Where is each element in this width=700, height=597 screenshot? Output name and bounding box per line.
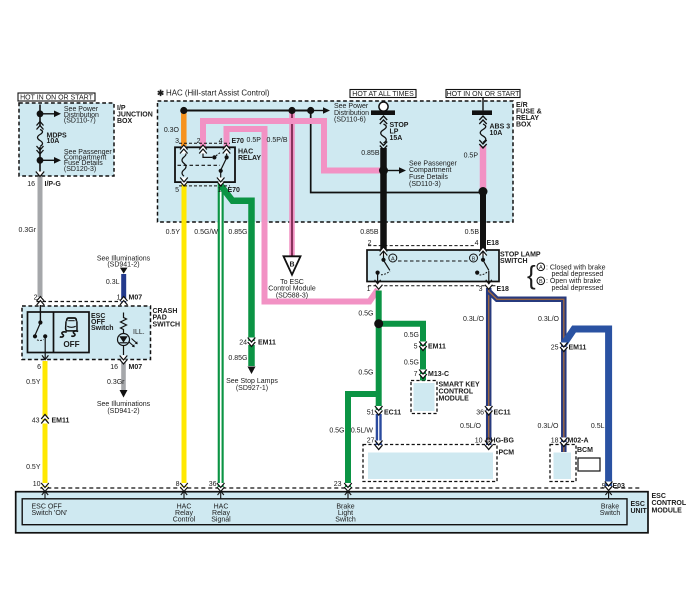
- wire 0.5P HAC relay pin 2 to stop-lp junction (pink): [203, 121, 381, 171]
- note see power distribution SD110-6: [334, 103, 369, 124]
- connector E18 pin 4 chevrons: [479, 247, 487, 256]
- svg-text:43: 43: [32, 417, 40, 424]
- svg-text:0.5G: 0.5G: [358, 369, 373, 376]
- arrow: see stop lamps: [248, 367, 256, 375]
- svg-text:SWITCH: SWITCH: [153, 321, 181, 328]
- svg-text:I/P-G: I/P-G: [45, 181, 62, 188]
- stop lamp switch mechanical link (dashed): [398, 260, 468, 262]
- svg-text:Switch: Switch: [91, 325, 114, 332]
- crash pad switch box (dashed module box): [22, 306, 151, 360]
- wire: I/P fuse lower lead: [39, 147, 41, 175]
- ESC pin 8 arrow: [181, 491, 187, 499]
- note to ESC control module SD588-3: [268, 279, 316, 300]
- symbol B triangle to ESC control module: [284, 253, 301, 275]
- connector EM11 pin 24 chevrons: [248, 338, 256, 347]
- connector chevrons ESC pin 10: [41, 483, 49, 492]
- svg-text:10: 10: [33, 481, 41, 488]
- connector M13-C pin 7 chevrons: [419, 370, 427, 379]
- connector chevrons ESC pin 36: [217, 483, 225, 492]
- connector E18 dashed line bottom: [368, 285, 497, 287]
- illumination LED lamp: [118, 334, 138, 356]
- connector E18 pin 3 chevrons: [485, 285, 493, 290]
- node: junction 0.85B / 0.5P: [379, 166, 388, 175]
- connector E18 pin 2 chevrons: [380, 247, 388, 256]
- svg-text:1: 1: [117, 295, 121, 302]
- svg-text:M07: M07: [129, 295, 143, 302]
- svg-text:23: 23: [334, 481, 342, 488]
- svg-text:0.5G: 0.5G: [404, 359, 419, 366]
- ESC pin 10 arrow: [42, 491, 48, 499]
- connector E70 pin 2 chevrons: [199, 145, 207, 154]
- connector EC11 pin 36 chevrons: [485, 406, 493, 415]
- svg-text:9: 9: [602, 483, 606, 490]
- label STOP LAMP SWITCH: [500, 251, 541, 265]
- BCM auxiliary white box: [578, 458, 600, 471]
- svg-text:CONTROL: CONTROL: [439, 389, 474, 396]
- ESC unit label brake light switch: [335, 503, 356, 523]
- ESC connector dashed line: [40, 487, 640, 489]
- connector M07 pin 16 chevrons: [120, 356, 128, 365]
- wire 0.5P/B to ESC control module (pink/black): [289, 112, 295, 256]
- svg-text:A: A: [391, 256, 395, 262]
- svg-text:7: 7: [414, 371, 418, 378]
- wire 0.5G branch to ESC pin 23 (green): [348, 394, 379, 488]
- svg-text:Control: Control: [173, 516, 196, 523]
- connector CHG-BG pin 10 chevrons: [485, 441, 493, 450]
- svg-text:ESC: ESC: [652, 493, 666, 500]
- svg-text:BCM: BCM: [577, 447, 593, 454]
- svg-text:(SD120-3): (SD120-3): [64, 166, 96, 173]
- stop lamp switch contact B: [470, 251, 492, 284]
- svg-text:0.85B: 0.85B: [360, 229, 379, 236]
- label pin 18 M02-A: [551, 437, 589, 444]
- connector M02-A pin 18 chevrons: [560, 438, 568, 447]
- wire 0.3O HAC relay pin 3 feed (orange): [181, 111, 187, 147]
- ESC unit pin numbers: [33, 481, 342, 488]
- svg-text:M13-C: M13-C: [428, 371, 449, 378]
- fuse MDPS 10A: [37, 122, 44, 155]
- label pin 2 M07 top: [34, 295, 143, 302]
- svg-text:25: 25: [551, 345, 559, 352]
- HOT IN ON OR START label box (left): [18, 93, 95, 102]
- svg-text:0.3L/O: 0.3L/O: [463, 316, 485, 323]
- fuse ABS 3 10A: [472, 97, 492, 148]
- svg-text:Switch: Switch: [600, 510, 621, 517]
- wire 0.85G HAC relay pin 1 branch to stop lamps: [221, 186, 252, 342]
- label pin 10 CHG-BG: [475, 437, 515, 444]
- ESC OFF switch contact: [33, 320, 49, 359]
- svg-text:(SD941-2): (SD941-2): [107, 408, 139, 415]
- svg-text:CONTROL: CONTROL: [652, 500, 687, 507]
- wire 0.5P ABS3 fuse output (pink): [480, 146, 487, 192]
- label pin 25 EM11: [551, 345, 587, 352]
- svg-text:0.5P: 0.5P: [464, 153, 479, 160]
- label E70 pins 3 2 4: [175, 137, 288, 145]
- svg-text:BOX: BOX: [516, 121, 532, 128]
- ESC unit inner box: [22, 499, 627, 525]
- svg-text:0.85G: 0.85G: [228, 229, 247, 236]
- connector EM11 pin 5 chevrons: [419, 342, 427, 351]
- svg-text:10A: 10A: [47, 138, 60, 145]
- HAC relay mechanical link (dashed): [178, 164, 221, 166]
- connector EM11 pin 43 chevrons: [41, 415, 49, 424]
- svg-text:36: 36: [476, 409, 484, 416]
- svg-text:0.3L/O: 0.3L/O: [537, 423, 559, 430]
- wire 0.5Y ESC OFF switch pin 6 to ESC pin 10 (yellow): [43, 361, 48, 488]
- HOT AT ALL TIMES label box: [350, 90, 416, 99]
- connector M07 pin 1 chevrons: [120, 297, 128, 306]
- svg-text:E70: E70: [228, 187, 241, 194]
- svg-text:HAC (Hill-start Assist Control: HAC (Hill-start Assist Control): [166, 88, 270, 97]
- BCM box (dashed): [550, 445, 576, 482]
- connector M07 dashed line top: [37, 301, 121, 303]
- wire 0.3Gr illumination ground (gray): [121, 362, 126, 390]
- stop lamp switch box: [367, 250, 499, 282]
- ESC unit label HAC relay signal: [211, 503, 231, 523]
- label I/P JUNCTION BOX: [117, 105, 153, 125]
- ESC OFF indicator icon (car with skid): [60, 318, 78, 337]
- label fuse STOP LP 15A: [390, 122, 409, 142]
- connector E70 pin 4 chevrons: [223, 145, 231, 154]
- svg-text:A: A: [539, 265, 543, 271]
- svg-text:0.3L: 0.3L: [106, 279, 120, 286]
- svg-text:MODULE: MODULE: [439, 396, 470, 403]
- node: junction 0.5G at stop lamp output: [374, 319, 383, 328]
- svg-text:EM11: EM11: [258, 339, 276, 346]
- svg-text:0.3Gr: 0.3Gr: [107, 379, 125, 386]
- svg-text:0.3L/O: 0.3L/O: [538, 316, 560, 323]
- arrow: see passenger fuse details SD120-3: [40, 157, 61, 164]
- HAC relay box: [175, 147, 235, 182]
- labels 0.85B 0.5B above E18: [360, 229, 479, 236]
- arrow: see power distribution SD110-7: [40, 111, 61, 118]
- legend circle A closed with brake pedal depressed: [537, 263, 606, 278]
- label CRASH PAD SWITCH: [153, 308, 181, 328]
- svg-text:0.5P: 0.5P: [247, 137, 262, 144]
- label E70 pins 5 1: [175, 187, 240, 194]
- svg-text:0.5G: 0.5G: [404, 332, 419, 339]
- svg-text:2: 2: [197, 138, 201, 145]
- svg-text:SMART KEY: SMART KEY: [439, 382, 481, 389]
- note see passenger compartment fuse details SD120-3: [64, 149, 113, 173]
- svg-text:16: 16: [110, 364, 118, 371]
- svg-text:M02-A: M02-A: [568, 437, 589, 444]
- svg-text:MODULE: MODULE: [652, 507, 683, 514]
- label fuse MDPS 10A: [47, 132, 68, 145]
- svg-text:5: 5: [414, 343, 418, 350]
- connector E03 pin 9 chevrons: [605, 482, 613, 491]
- svg-text:51: 51: [367, 409, 375, 416]
- label ESC OFF Switch: [91, 313, 114, 332]
- svg-text:E18: E18: [487, 240, 500, 247]
- wire 0.5G/W HAC relay pin 1 to ESC pin 36 (green/white): [218, 182, 224, 488]
- illumination lamp resistor: [121, 313, 127, 334]
- label ESC UNIT: [631, 501, 648, 515]
- wire 0.5Y HAC relay pin 5 to ESC pin 8 (yellow): [182, 182, 187, 488]
- svg-text:4: 4: [219, 138, 223, 145]
- connector E18 pin 1 chevrons: [375, 285, 383, 290]
- svg-text:BOX: BOX: [117, 118, 133, 125]
- svg-text:CHG-BG: CHG-BG: [486, 437, 515, 444]
- ESC control module outer box: [16, 492, 648, 533]
- labels wires below HAC box: [166, 229, 248, 236]
- node: I/P fuse upper junction: [37, 110, 44, 117]
- smart key control module box (dashed): [411, 381, 437, 414]
- ESC OFF switch box: [28, 312, 90, 353]
- connector E18 dashed line top: [368, 245, 475, 247]
- svg-text:10: 10: [475, 437, 483, 444]
- svg-text:0.5L/W: 0.5L/W: [351, 427, 374, 434]
- HAC relay coil: [182, 152, 186, 177]
- svg-text:0.5P/B: 0.5P/B: [267, 137, 288, 144]
- svg-text:0.5G: 0.5G: [329, 427, 344, 434]
- svg-text:HOT AT ALL TIMES: HOT AT ALL TIMES: [352, 91, 414, 98]
- wire 0.3Gr I/P-G (gray): [38, 177, 43, 297]
- ESC unit label HAC relay control: [173, 503, 196, 523]
- label ESC CONTROL MODULE: [652, 493, 687, 514]
- label pin 24 EM11: [239, 339, 276, 346]
- node: bus junction at 0.5P/B: [288, 107, 295, 114]
- svg-text:0.85G: 0.85G: [228, 355, 247, 362]
- svg-text:0.3Gr: 0.3Gr: [18, 227, 36, 234]
- label E18 pins 2 4: [368, 240, 499, 247]
- wire 0.5L/W EC11-51 to PCM pin 27 (blue/white): [376, 414, 382, 446]
- ESC pin 23 arrow: [345, 491, 351, 499]
- arrow: see power distribution SD110-6: [311, 107, 330, 114]
- svg-text:See Illuminations: See Illuminations: [97, 401, 151, 408]
- wire 0.3L illumination feed (blue): [121, 274, 126, 305]
- arrow: see passenger fuse details SD110-3: [384, 167, 407, 174]
- label pin 16 I/P-G: [27, 181, 61, 188]
- wire 0.5B to stop lamp switch pin 4 (black): [480, 192, 486, 251]
- HAC / E/R fuse-relay box region (dashed module box): [158, 101, 514, 222]
- svg-text:(SD110-3): (SD110-3): [409, 181, 441, 188]
- arrow: see illuminations top: [120, 268, 128, 274]
- svg-text:36: 36: [209, 481, 217, 488]
- svg-text:✱: ✱: [157, 88, 165, 98]
- note see passenger compartment fuse details SD110-3: [409, 160, 458, 187]
- svg-text:2: 2: [368, 240, 372, 247]
- label pin 5 EM11: [414, 343, 446, 350]
- svg-text:Switch 'ON': Switch 'ON': [32, 510, 68, 517]
- svg-text:(SD927-1): (SD927-1): [236, 385, 268, 392]
- ESC unit label brake switch: [600, 503, 621, 517]
- svg-text:0.5B: 0.5B: [465, 229, 480, 236]
- wire 0.5L EM11-25 to ESC pin 9 brake switch (blue): [564, 329, 609, 488]
- connector EC11 pin 51 chevrons: [375, 406, 383, 415]
- svg-text:: Open with brake: : Open with brake: [546, 278, 601, 285]
- note see stop lamps SD927-1: [226, 378, 278, 392]
- connector E70 pin 5 chevrons: [180, 178, 188, 187]
- wire 0.5G branch to EM11-5 / smart key (green): [379, 324, 423, 381]
- HAC relay contact: [203, 149, 229, 181]
- svg-text:EC11: EC11: [494, 409, 511, 416]
- svg-text:0.85B: 0.85B: [361, 150, 380, 157]
- svg-text:1: 1: [367, 286, 371, 293]
- svg-text:0.5Y: 0.5Y: [26, 464, 41, 471]
- connector chevrons ESC pin 23: [344, 483, 352, 492]
- svg-text:1: 1: [218, 187, 222, 194]
- label pins 6 16 M07 bottom: [37, 364, 142, 371]
- svg-text:4: 4: [475, 240, 479, 247]
- wire 0.85B stop lp fuse to stop lamp switch pin 2 (black): [380, 148, 387, 250]
- connector E70 pin 1 chevrons: [217, 178, 225, 187]
- svg-text:18: 18: [551, 437, 559, 444]
- connector exit arrow I/P-G pin 16: [36, 172, 44, 177]
- node: bus junction at orange: [180, 107, 187, 114]
- svg-text:0.5G/W: 0.5G/W: [194, 229, 218, 236]
- svg-text:E03: E03: [613, 483, 626, 490]
- svg-text:B: B: [539, 279, 543, 285]
- svg-text:EM11: EM11: [428, 343, 446, 350]
- svg-text:UNIT: UNIT: [631, 508, 648, 515]
- svg-text:0.5G: 0.5G: [358, 310, 373, 317]
- label E18 pins 1 3: [367, 286, 509, 293]
- label pin 43 EM11: [32, 417, 70, 424]
- connector E70 dashed line bottom: [179, 185, 230, 187]
- fuse STOP LP 15A with ring terminal: [371, 102, 395, 150]
- svg-text:27: 27: [367, 437, 375, 444]
- svg-text:5: 5: [175, 187, 179, 194]
- label pin 36 EC11: [476, 409, 511, 416]
- wire: I/P fuse feed (thin black inside I/P box): [39, 105, 41, 127]
- svg-text:10A: 10A: [490, 130, 503, 137]
- svg-text:See Stop Lamps: See Stop Lamps: [226, 378, 278, 385]
- svg-text:SWITCH: SWITCH: [500, 258, 528, 265]
- svg-text:0.5L: 0.5L: [591, 423, 605, 430]
- I/P junction box (dashed module box): [19, 103, 114, 176]
- connector PCM pin 27 chevrons: [375, 441, 383, 450]
- svg-text:EM11: EM11: [569, 345, 587, 352]
- wire: bus drop to ABS3 junction (thin black): [311, 111, 481, 193]
- label E/R FUSE RELAY BOX: [516, 102, 542, 128]
- wire 0.85G below EM11-24: [248, 345, 255, 366]
- svg-text:E18: E18: [497, 286, 510, 293]
- svg-text:0.5Y: 0.5Y: [26, 379, 41, 386]
- svg-text:B: B: [289, 262, 294, 269]
- ESC pin 36 arrow: [218, 491, 224, 499]
- svg-text:(SD588-3): (SD588-3): [276, 293, 308, 300]
- svg-text:(SD110-6): (SD110-6): [334, 117, 366, 124]
- arrow: see illuminations bottom: [120, 390, 128, 398]
- svg-text:8: 8: [176, 481, 180, 488]
- PCM box (dashed): [363, 445, 497, 482]
- note see power distribution SD110-7: [64, 106, 99, 124]
- svg-text:B: B: [472, 256, 476, 262]
- node: I/P fuse lower junction: [37, 157, 44, 164]
- svg-text:(SD941-2): (SD941-2): [107, 262, 139, 269]
- svg-text:HOT IN ON OR START: HOT IN ON OR START: [20, 95, 93, 102]
- wire 0.3L/O stop lamp switch pin 3 to PCM pin 10 (blue/orange): [486, 288, 492, 446]
- svg-text:6: 6: [37, 364, 41, 371]
- svg-text:pedal depressed: pedal depressed: [552, 285, 604, 292]
- svg-text:PCM: PCM: [499, 449, 515, 456]
- label pin 7 M13-C: [414, 371, 449, 378]
- svg-text:M07: M07: [129, 364, 143, 371]
- stop lamp switch contact A: [375, 251, 397, 284]
- wire 0.5P HAC relay pin 4 to stop lamp switch pin 1 (pink): [227, 129, 378, 302]
- wire 0.3L/O branch to EM11-25 and BCM (blue/orange): [489, 292, 564, 453]
- HOT IN ON OR START label box (right): [446, 90, 520, 99]
- connector E70 dashed line top: [179, 142, 230, 144]
- legend circle B open with brake pedal depressed: [537, 277, 603, 292]
- svg-text:EM11: EM11: [52, 417, 70, 424]
- svg-text:ILL.: ILL.: [133, 329, 145, 336]
- wire 0.5G stop lamp switch pin 1 down (green): [376, 291, 382, 411]
- ESC unit label ESC OFF switch on: [32, 503, 68, 517]
- svg-text:ESC: ESC: [631, 501, 645, 508]
- note see illuminations bottom: [97, 401, 151, 415]
- connector EM11 pin 25 chevrons: [560, 343, 568, 352]
- note see illuminations top: [97, 255, 151, 268]
- svg-text:3: 3: [479, 286, 483, 293]
- connector E70 pin 3 chevrons: [180, 145, 188, 154]
- svg-text:15A: 15A: [390, 135, 403, 142]
- connector M07 pin 2 chevrons: [37, 297, 45, 306]
- label pin 9 E03: [602, 483, 625, 490]
- wire: HAC power bus (thin black): [184, 110, 312, 112]
- wire inside ESC OFF switch to pin 2: [39, 305, 41, 322]
- label pin 51 EC11: [367, 409, 402, 416]
- label SMART KEY CONTROL MODULE: [439, 382, 481, 403]
- label fuse ABS 3 10A: [490, 123, 511, 137]
- svg-text:E70: E70: [232, 138, 245, 145]
- svg-text:3: 3: [175, 138, 179, 145]
- svg-text:Signal: Signal: [211, 516, 231, 523]
- label HAC RELAY: [238, 148, 261, 162]
- svg-text:(SD110-7): (SD110-7): [64, 118, 96, 125]
- svg-text:16: 16: [27, 181, 35, 188]
- title HAC hill-start assist control: [157, 88, 270, 98]
- svg-text:2: 2: [34, 295, 38, 302]
- svg-text:0.5L/O: 0.5L/O: [460, 423, 482, 430]
- svg-text:24: 24: [239, 339, 247, 346]
- svg-text:RELAY: RELAY: [238, 155, 261, 162]
- svg-text:0.3O: 0.3O: [164, 127, 180, 134]
- node: bus junction at drop wire: [307, 107, 314, 114]
- svg-text:OFF: OFF: [63, 340, 79, 349]
- svg-text:EC11: EC11: [384, 409, 401, 416]
- node: junction 0.5P / 0.5B at ABS3: [479, 187, 488, 196]
- ESC pin 9 arrow: [605, 491, 611, 499]
- svg-text:Switch: Switch: [335, 516, 356, 523]
- svg-text:{: {: [527, 260, 536, 290]
- connector chevrons ESC pin 8: [180, 483, 188, 492]
- svg-text:0.5Y: 0.5Y: [166, 229, 181, 236]
